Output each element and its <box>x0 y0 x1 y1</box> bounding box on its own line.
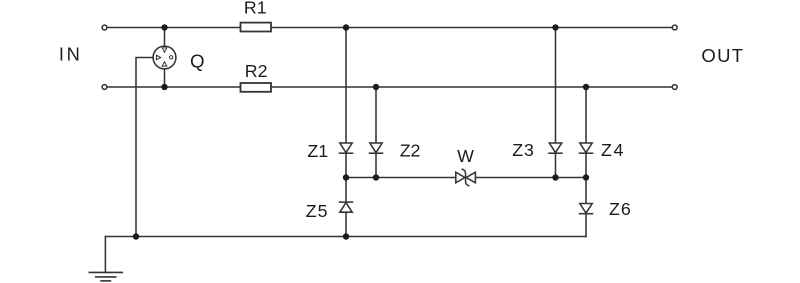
svg-text:W: W <box>457 146 474 166</box>
svg-text:OUT: OUT <box>701 45 744 66</box>
svg-text:Z6: Z6 <box>609 199 632 219</box>
svg-text:Z1: Z1 <box>307 141 328 161</box>
svg-text:Q: Q <box>190 51 205 72</box>
svg-text:R2: R2 <box>245 61 268 81</box>
svg-text:Z5: Z5 <box>306 201 329 221</box>
svg-text:Z4: Z4 <box>601 140 625 160</box>
svg-text:Z3: Z3 <box>512 140 535 160</box>
svg-text:IN: IN <box>59 44 82 65</box>
svg-text:R1: R1 <box>244 0 267 17</box>
svg-text:Z2: Z2 <box>400 140 421 160</box>
